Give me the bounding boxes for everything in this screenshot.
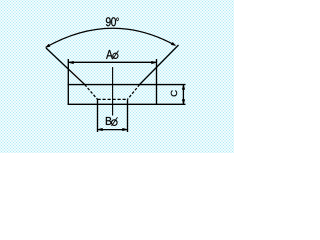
countersink slope extension line left (45 deg): [46, 48, 85, 85]
label degree symbol: [116, 18, 118, 22]
label A: [106, 50, 113, 59]
B-dia right arrowhead: [123, 128, 128, 131]
C dimension line: [182, 85, 184, 105]
C top arrowhead: [182, 85, 185, 90]
bottom surface edge + C extension line: [68, 103, 186, 105]
countersink slope extension line right (45 deg): [140, 45, 179, 85]
left edge + A-dia extension line: [67, 59, 69, 105]
B-dia left arrowhead: [98, 128, 103, 131]
hidden countersink cone edge left (dashed): [85, 85, 98, 100]
right edge + A-dia extension line: [156, 59, 158, 105]
label digit 9 of 90deg: [106, 17, 111, 26]
A diameter symbol: [112, 51, 118, 60]
B diameter symbol: [112, 117, 118, 126]
hidden countersink bottom line (dashed): [98, 98, 128, 100]
hidden countersink cone edge right (dashed): [128, 85, 140, 100]
A-dia right arrowhead: [152, 61, 157, 64]
90deg angular dimension arc: [46, 28, 176, 47]
A-dia left arrowhead: [69, 61, 74, 64]
background crosshatch: [0, 0, 234, 153]
hole wall right + B-dia extension line: [127, 99, 129, 132]
arc right arrowhead: [171, 42, 175, 45]
centerline: [112, 67, 114, 116]
label B: [106, 117, 112, 125]
label digit 0 of 90deg: [111, 17, 116, 26]
label C (rotated): [171, 90, 177, 96]
arc left arrowhead: [46, 44, 51, 47]
A-dia dimension line: [68, 61, 156, 63]
hole wall left + B-dia extension line: [97, 99, 99, 132]
top surface edge + C extension line: [68, 84, 186, 86]
C bottom arrowhead: [182, 100, 185, 105]
B-dia dimension line: [98, 129, 128, 131]
